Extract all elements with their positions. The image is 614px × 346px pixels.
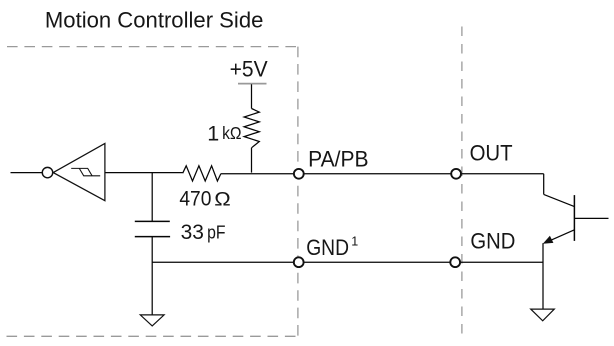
svg-text:pF: pF xyxy=(207,223,225,243)
svg-text:470: 470 xyxy=(179,187,211,211)
svg-text:1: 1 xyxy=(207,122,219,146)
svg-text:PA/PB: PA/PB xyxy=(308,147,369,172)
svg-text:Ω: Ω xyxy=(214,190,231,211)
svg-text:GND: GND xyxy=(306,235,349,260)
svg-text:1: 1 xyxy=(351,234,358,248)
svg-text:33: 33 xyxy=(181,220,204,244)
svg-text:kΩ: kΩ xyxy=(222,123,242,143)
svg-text:GND: GND xyxy=(470,228,515,253)
svg-text:OUT: OUT xyxy=(470,141,513,166)
svg-text:Motion Controller Side: Motion Controller Side xyxy=(45,8,264,33)
svg-text:+5V: +5V xyxy=(230,56,268,81)
